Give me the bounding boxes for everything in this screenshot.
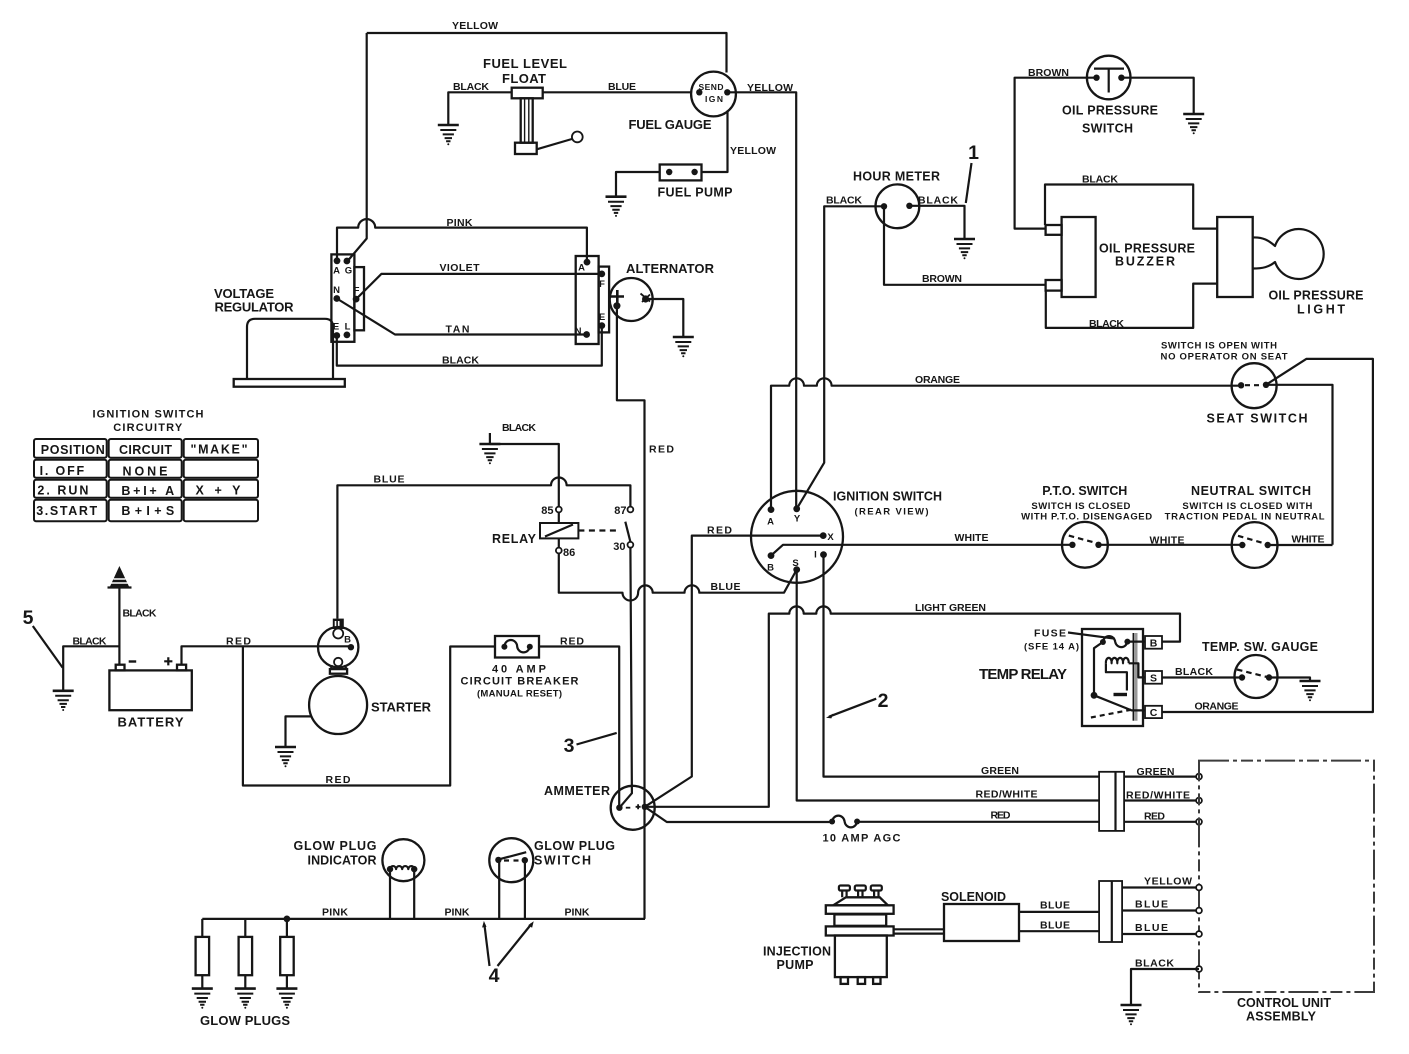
svg-text:BLUE: BLUE — [1040, 900, 1070, 912]
temp relay inner wire fuse to contact — [1094, 642, 1103, 693]
svg-text:BLACK: BLACK — [442, 355, 479, 367]
svg-text:ORANGE: ORANGE — [1195, 701, 1239, 713]
svg-text:2: 2 — [878, 690, 889, 712]
svg-text:GLOW PLUGS: GLOW PLUGS — [200, 1013, 290, 1028]
wire PINK regulator A to alternator connector A — [337, 219, 587, 262]
battery chassis ground triangle — [110, 566, 129, 587]
svg-text:B: B — [344, 635, 351, 646]
fuel level float sender body — [512, 88, 543, 99]
svg-text:(REAR VIEW): (REAR VIEW) — [855, 507, 929, 518]
svg-text:FUEL PUMP: FUEL PUMP — [658, 186, 733, 200]
svg-text:YELLOW: YELLOW — [747, 82, 793, 94]
oil pressure light bulb — [1253, 229, 1324, 279]
float arm and ball — [537, 139, 572, 149]
ground control unit — [1121, 1005, 1142, 1025]
svg-text:(SFE 14 A): (SFE 14 A) — [1024, 642, 1079, 653]
starter solenoid S terminal — [333, 619, 344, 629]
starter solenoid circle — [318, 627, 358, 667]
svg-text:GLOW PLUG: GLOW PLUG — [534, 839, 615, 853]
pin A regulator — [334, 257, 341, 264]
svg-text:SWITCH IS CLOSED WITH: SWITCH IS CLOSED WITH — [1182, 501, 1312, 512]
wire BLACK fuel level float to ground — [448, 92, 511, 125]
svg-text:SWITCH: SWITCH — [1082, 122, 1133, 136]
PTO switch blade dashed — [1069, 536, 1099, 544]
svg-text:RED: RED — [991, 810, 1011, 822]
glow plug 2 — [244, 919, 246, 989]
svg-text:1: 1 — [968, 142, 979, 164]
svg-text:OIL PRESSURE: OIL PRESSURE — [1062, 104, 1158, 118]
wire RED/WHITE ignition S down to control unit — [797, 570, 1199, 801]
injection pump lower body — [835, 936, 887, 978]
control unit terminals lower — [1196, 885, 1202, 891]
svg-text:RED: RED — [649, 444, 674, 456]
svg-text:BLUE: BLUE — [1135, 922, 1168, 934]
svg-text:SWITCH IS OPEN WITH: SWITCH IS OPEN WITH — [1161, 341, 1277, 352]
glow plug indicator coil — [390, 866, 414, 869]
wire BLACK buzzer top to light — [1045, 185, 1217, 229]
ignition pin X — [820, 532, 827, 539]
svg-text:86: 86 — [563, 547, 575, 559]
ground glow plug 2 — [235, 989, 256, 1009]
temp sw gauge circle — [1235, 655, 1278, 698]
svg-text:B+I+S: B+I+S — [121, 504, 174, 518]
svg-text:C: C — [1150, 707, 1158, 719]
svg-text:X: X — [827, 532, 834, 543]
ground glow plug 1 — [192, 989, 213, 1009]
wire oil pressure switch to ground — [1121, 78, 1193, 114]
ground glow plug 3 — [276, 989, 297, 1009]
fuel gauge circle — [691, 72, 736, 117]
svg-text:HOUR METER: HOUR METER — [853, 170, 940, 184]
relay blade 87 to 30 — [625, 522, 630, 542]
pin F regulator — [353, 296, 360, 303]
wire YELLOW top from voltage regulator G to fuel gauge — [367, 33, 727, 73]
battery positive terminal — [177, 665, 186, 671]
wire WHITE ignition B to PTO switch — [771, 545, 1072, 556]
svg-text:POSITION: POSITION — [41, 443, 105, 457]
temp relay armature bar — [1134, 633, 1137, 721]
temp relay box — [1082, 629, 1143, 726]
ground hour meter — [954, 239, 975, 259]
fuel pump body — [660, 165, 702, 181]
wire ORANGE ignition A to seat switch — [771, 378, 1241, 509]
wire relay 30 to ammeter needle — [619, 548, 632, 808]
temp relay terminal C — [1145, 706, 1162, 718]
svg-text:B: B — [1150, 638, 1158, 650]
ammeter plus terminal — [636, 804, 641, 809]
svg-text:(MANUAL RESET): (MANUAL RESET) — [477, 689, 562, 700]
svg-text:ALTERNATOR: ALTERNATOR — [626, 261, 715, 276]
svg-text:SEND: SEND — [699, 82, 724, 92]
wire WHITE PTO to neutral switch — [1099, 544, 1243, 546]
voltage regulator connector block — [331, 254, 354, 341]
svg-text:BLACK: BLACK — [1089, 318, 1124, 330]
fuel gauge IGN pin — [724, 89, 730, 95]
svg-text:BATTERY: BATTERY — [118, 715, 184, 730]
wire BLUE connector to control unit — [1122, 909, 1199, 911]
wires glow plug switch to pink wire — [499, 860, 525, 919]
injection pump top trapezoid — [833, 897, 888, 905]
wire RED alternator to ammeter plus — [617, 306, 645, 919]
svg-text:BLUE: BLUE — [711, 581, 741, 593]
svg-text:BLACK: BLACK — [123, 608, 157, 620]
ground temp sw gauge — [1300, 681, 1321, 701]
svg-text:TEMP RELAY: TEMP RELAY — [979, 666, 1067, 683]
svg-text:PUMP: PUMP — [777, 958, 814, 972]
alternator right terminal — [642, 295, 649, 302]
svg-text:TAN: TAN — [446, 324, 470, 336]
svg-text:FUSE: FUSE — [1034, 628, 1066, 640]
relay pin 30 — [628, 542, 634, 548]
wire VIOLET regulator F to alternator connector F — [356, 274, 602, 299]
injection pump stud 1 — [839, 886, 882, 898]
wires glow plug indicator to pink wire — [390, 869, 414, 919]
svg-text:GLOW PLUG: GLOW PLUG — [294, 839, 377, 853]
harness connector upper — [1099, 772, 1124, 831]
wire fuel pump to ground — [616, 172, 660, 197]
svg-text:TRACTION PEDAL IN NEUTRAL: TRACTION PEDAL IN NEUTRAL — [1165, 512, 1325, 523]
svg-text:BLACK: BLACK — [73, 636, 107, 648]
temp relay dashed blade — [1091, 709, 1135, 718]
voltage regulator bell body — [247, 319, 333, 379]
svg-text:REGULATOR: REGULATOR — [215, 300, 295, 315]
wire YELLOW fuel gauge to ignition Y — [727, 92, 796, 509]
svg-text:RED: RED — [226, 636, 251, 648]
fuel gauge SEND pin — [696, 89, 702, 95]
pin L regulator — [344, 332, 351, 339]
svg-text:3: 3 — [564, 735, 575, 757]
control unit assembly box dash-dot — [1199, 761, 1374, 992]
wire BROWN oil pressure switch to buzzer upper lug — [1015, 78, 1097, 229]
wire starter to ground — [286, 716, 312, 747]
svg-text:RELAY: RELAY — [492, 532, 537, 546]
svg-text:OIL PRESSURE: OIL PRESSURE — [1099, 242, 1195, 256]
oil pressure buzzer body — [1062, 217, 1096, 297]
svg-text:PINK: PINK — [565, 907, 590, 919]
svg-text:RED: RED — [1144, 811, 1165, 823]
glow plug 3 — [286, 919, 288, 989]
glow plug indicator circle — [382, 839, 424, 881]
wire fuel gauge to fuel pump — [702, 111, 728, 173]
svg-text:BLACK: BLACK — [453, 81, 489, 93]
ignition pin S — [793, 566, 800, 573]
ground relay coil — [479, 444, 500, 464]
seat switch blade dashed — [1245, 384, 1262, 386]
svg-text:WITH P.T.O. DISENGAGED: WITH P.T.O. DISENGAGED — [1021, 512, 1152, 523]
injection pump to solenoid rod — [894, 929, 944, 933]
svg-text:G: G — [345, 266, 352, 277]
alternator plus terminal — [611, 290, 625, 303]
ground alternator — [673, 337, 694, 357]
svg-text:FUEL GAUGE: FUEL GAUGE — [629, 117, 712, 132]
wire BLACK battery negative to grounds — [118, 588, 120, 665]
injection pump stud 2 — [855, 886, 866, 891]
harness connector lower — [1099, 881, 1122, 942]
ignition pin Y — [793, 505, 800, 512]
ignition switch circuitry table cells — [34, 439, 258, 521]
injection pump mid body — [834, 914, 886, 925]
solenoid box — [944, 904, 1019, 941]
svg-text:LIGHT: LIGHT — [1297, 303, 1345, 317]
svg-text:YELLOW: YELLOW — [452, 20, 498, 32]
svg-text:I: I — [814, 550, 817, 561]
svg-text:N: N — [333, 285, 340, 296]
battery body — [109, 670, 191, 710]
relay pin 86 — [556, 548, 562, 554]
svg-text:PINK: PINK — [322, 907, 348, 919]
pin N alternator connector — [583, 331, 590, 338]
pin N regulator — [333, 295, 340, 302]
oil pressure light socket — [1217, 217, 1253, 297]
pin G regulator — [344, 258, 351, 265]
svg-text:X + Y: X + Y — [196, 484, 242, 498]
svg-text:B: B — [767, 563, 774, 574]
wire BROWN hour meter to buzzer — [884, 206, 1046, 284]
svg-text:AMMETER: AMMETER — [544, 784, 610, 798]
temp relay terminal B — [1145, 636, 1162, 649]
svg-text:E: E — [599, 312, 605, 323]
svg-text:CIRCUIT BREAKER: CIRCUIT BREAKER — [461, 676, 579, 688]
svg-text:YELLOW: YELLOW — [730, 145, 776, 157]
svg-text:40 AMP: 40 AMP — [492, 664, 546, 676]
ignition pin B — [768, 552, 775, 559]
svg-text:NEUTRAL SWITCH: NEUTRAL SWITCH — [1191, 484, 1311, 498]
wire YELLOW connector to control unit — [1122, 886, 1199, 888]
svg-text:BROWN: BROWN — [922, 273, 962, 285]
svg-text:PINK: PINK — [445, 907, 470, 919]
svg-text:BLUE: BLUE — [374, 474, 405, 486]
wire RED circuit breaker to ammeter minus — [539, 647, 619, 808]
wire BLUE float to fuel gauge — [543, 91, 692, 93]
svg-text:VIOLET: VIOLET — [440, 262, 481, 274]
ignition pin I — [820, 551, 827, 558]
glow plug switch blade — [499, 852, 526, 859]
svg-text:I. OFF: I. OFF — [40, 464, 85, 478]
pin F alternator connector — [598, 271, 605, 278]
svg-text:87: 87 — [614, 505, 626, 517]
relay armature dashed link — [578, 529, 620, 531]
glow plug switch circle — [489, 838, 533, 882]
svg-text:NO OPERATOR ON SEAT: NO OPERATOR ON SEAT — [1161, 352, 1288, 363]
svg-text:SEAT SWITCH: SEAT SWITCH — [1207, 412, 1308, 426]
injection pump feet — [841, 977, 848, 984]
starter solenoid flange — [331, 665, 347, 669]
neutral switch blade dashed — [1238, 536, 1268, 545]
svg-text:INJECTION: INJECTION — [763, 945, 831, 959]
hour meter circle — [876, 184, 920, 228]
svg-text:FLOAT: FLOAT — [502, 71, 546, 86]
wire BLUE connector to control unit lower — [1122, 933, 1199, 935]
temp relay blade to C — [1094, 695, 1145, 710]
starter motor circle — [309, 676, 367, 734]
svg-text:CIRCUIT: CIRCUIT — [119, 443, 172, 457]
svg-text:BLACK: BLACK — [1175, 666, 1213, 678]
svg-text:SWITCH IS CLOSED: SWITCH IS CLOSED — [1031, 501, 1130, 512]
svg-text:A: A — [767, 517, 774, 528]
svg-text:WHITE: WHITE — [955, 532, 989, 544]
wire BLACK hour meter to ground — [909, 206, 964, 239]
wire seat switch to orange return (diagonal) — [1162, 359, 1373, 712]
svg-text:YELLOW: YELLOW — [1144, 876, 1192, 888]
ground fuel pump — [606, 197, 627, 217]
pin E regulator — [333, 332, 340, 339]
wire temp sw gauge to ground — [1269, 678, 1310, 682]
temp relay fuse element — [1100, 639, 1106, 645]
ignition pin A — [768, 506, 775, 513]
ground oil pressure switch — [1183, 114, 1204, 134]
wire BLUE solenoid to connector upper — [1019, 911, 1099, 913]
wire TAN regulator N to alternator connector N — [337, 299, 587, 335]
battery negative terminal — [116, 665, 125, 671]
svg-text:INDICATOR: INDICATOR — [308, 854, 377, 868]
svg-text:IGNITION SWITCH: IGNITION SWITCH — [833, 490, 942, 504]
neutral switch circle — [1232, 522, 1278, 568]
wire BLACK hour meter to ignition Y — [797, 206, 884, 509]
wire BLUE solenoid to connector lower — [1019, 930, 1099, 932]
wire WHITE neutral switch right — [1268, 544, 1333, 546]
temp relay terminal S — [1145, 671, 1162, 684]
seat switch circle — [1232, 363, 1277, 408]
svg-text:CONTROL UNIT: CONTROL UNIT — [1237, 996, 1331, 1010]
pin A alternator connector — [584, 259, 591, 266]
svg-text:OIL PRESSURE: OIL PRESSURE — [1269, 289, 1364, 303]
glow plug 1 — [201, 919, 203, 989]
wire BLACK regulator E to alternator connector E — [337, 326, 602, 366]
svg-text:SOLENOID: SOLENOID — [941, 890, 1006, 904]
svg-text:BLUE: BLUE — [608, 81, 636, 93]
svg-text:STARTER: STARTER — [371, 700, 432, 715]
wire BLUE starter S to relay 87 — [337, 477, 630, 618]
svg-text:5: 5 — [23, 607, 34, 629]
injection pump upper band — [826, 905, 894, 914]
temp relay heater coil — [1106, 658, 1129, 663]
alternator circle — [610, 278, 653, 321]
svg-text:IGNITION SWITCH: IGNITION SWITCH — [93, 409, 204, 421]
oil pressure switch circle — [1087, 56, 1131, 100]
svg-text:N: N — [575, 326, 582, 337]
pin E alternator connector — [598, 322, 605, 329]
circuit breaker element — [501, 644, 507, 650]
relay pin 85 — [556, 507, 562, 513]
svg-text:LIGHT GREEN: LIGHT GREEN — [915, 602, 986, 614]
svg-text:ASSEMBLY: ASSEMBLY — [1246, 1010, 1317, 1024]
svg-text:BLUE: BLUE — [1135, 899, 1168, 911]
svg-text:10 AMP AGC: 10 AMP AGC — [823, 833, 901, 845]
svg-text:GREEN: GREEN — [981, 765, 1019, 777]
wire GREEN ignition I down to control unit — [824, 555, 1200, 777]
temp relay contact pads — [1114, 693, 1128, 696]
wire alternator to ground — [646, 299, 684, 337]
svg-text:WHITE: WHITE — [1150, 535, 1185, 547]
wire RED battery positive to starter B — [182, 646, 351, 664]
wire BLACK relay coil to ground — [490, 433, 559, 510]
wire BLACK temp relay S to temp sw gauge — [1162, 676, 1242, 678]
svg-text:4: 4 — [489, 965, 500, 987]
ammeter circle — [611, 786, 655, 830]
svg-text:GREEN: GREEN — [1137, 766, 1175, 778]
svg-text:A: A — [333, 266, 340, 277]
svg-text:E: E — [333, 322, 339, 333]
svg-text:RED: RED — [707, 525, 732, 537]
svg-text:L: L — [345, 322, 351, 333]
wire BLACK control unit to ground — [1131, 969, 1199, 1005]
svg-text:A: A — [578, 263, 585, 274]
circuit breaker box — [495, 636, 539, 658]
svg-text:BLACK: BLACK — [826, 195, 862, 207]
wire PINK glow plugs bus — [202, 918, 645, 920]
svg-text:85: 85 — [541, 505, 553, 517]
svg-text:BLACK: BLACK — [1082, 174, 1118, 186]
svg-text:RED/WHITE: RED/WHITE — [976, 789, 1038, 801]
svg-text:BLUE: BLUE — [1040, 920, 1070, 932]
relay pin 87 — [628, 507, 634, 513]
svg-text:WHITE: WHITE — [1292, 534, 1325, 546]
injection pump lower band — [826, 926, 894, 935]
wire RED ignition X to ammeter plus — [645, 536, 823, 807]
svg-text:RED: RED — [326, 774, 351, 786]
alternator connector block — [576, 256, 599, 344]
svg-text:TEMP. SW. GAUGE: TEMP. SW. GAUGE — [1202, 640, 1318, 654]
svg-text:30: 30 — [613, 541, 625, 553]
svg-text:S: S — [792, 558, 798, 569]
control unit terminals upper — [1196, 774, 1202, 780]
wire BLACK buzzer bottom to light — [1046, 284, 1217, 328]
svg-text:P.T.O. SWITCH: P.T.O. SWITCH — [1042, 484, 1127, 498]
wire LIGHT GREEN ammeter plus to temp relay B — [645, 606, 1180, 806]
svg-text:PINK: PINK — [447, 217, 473, 229]
svg-text:F: F — [599, 279, 605, 290]
wire seat switch right to white wire — [1266, 385, 1333, 545]
svg-text:ORANGE: ORANGE — [915, 374, 960, 386]
temp sw gauge blade dashed — [1237, 670, 1269, 678]
ground battery black wire — [53, 691, 74, 711]
wire RED ammeter plus to 10 amp fuse to control unit — [645, 807, 832, 822]
ground fuel level float — [438, 125, 459, 145]
svg-text:Y: Y — [794, 514, 801, 525]
wire RED battery junction down to circuit breaker — [243, 646, 495, 785]
svg-text:CIRCUITRY: CIRCUITRY — [113, 422, 183, 434]
svg-text:BLACK: BLACK — [1135, 958, 1174, 970]
ignition switch circle — [751, 491, 843, 583]
relay coil box — [558, 512, 560, 547]
svg-text:"MAKE": "MAKE" — [191, 443, 248, 457]
svg-text:F: F — [354, 286, 360, 297]
svg-text:RED/WHITE: RED/WHITE — [1126, 790, 1190, 802]
svg-text:S: S — [1150, 673, 1157, 685]
injection pump stud 3 — [871, 886, 882, 891]
PTO switch circle — [1062, 522, 1108, 568]
junction dot glow plug 3 — [284, 916, 291, 923]
svg-text:FUEL LEVEL: FUEL LEVEL — [483, 56, 567, 71]
ammeter minus terminal — [616, 805, 622, 811]
svg-text:BLACK: BLACK — [502, 422, 536, 434]
svg-text:BLACK: BLACK — [918, 195, 958, 207]
wire BLUE relay 86 to ignition S — [559, 553, 797, 600]
ground starter — [275, 747, 296, 767]
